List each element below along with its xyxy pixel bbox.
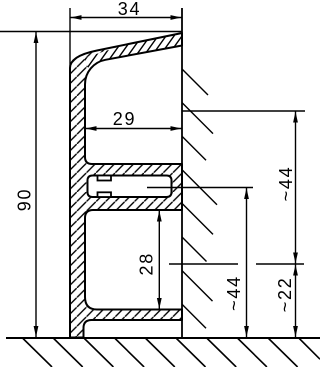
svg-text:~22: ~22 bbox=[275, 277, 295, 313]
profile outline bbox=[70, 33, 182, 338]
dimension 90 line bbox=[35, 32, 37, 338]
dimension 90 top extension line bbox=[0, 31, 182, 33]
floor hatch bbox=[23, 339, 320, 367]
dimension ~44 right line bbox=[295, 111, 297, 264]
svg-text:90: 90 bbox=[15, 188, 35, 211]
svg-text:28: 28 bbox=[137, 252, 157, 275]
extension line right upper bbox=[182, 110, 305, 112]
extension line at ~22 level bbox=[169, 263, 238, 265]
svg-text:34: 34 bbox=[118, 0, 141, 19]
wall bbox=[181, 8, 183, 338]
dimension ~44 middle line bbox=[246, 188, 248, 338]
svg-text:~44: ~44 bbox=[276, 166, 296, 202]
svg-text:29: 29 bbox=[113, 109, 136, 129]
extension line at screw height bbox=[147, 187, 253, 189]
dimension 34 extension line left bbox=[69, 8, 71, 70]
dimension 29 line bbox=[85, 128, 182, 130]
dimension 28 line bbox=[158, 210, 160, 310]
dimension ~22 line bbox=[295, 264, 297, 338]
wall hatch bbox=[182, 69, 217, 328]
floor bbox=[6, 337, 320, 339]
clip notch lower bbox=[98, 192, 112, 197]
dimension 34 line bbox=[70, 17, 182, 19]
svg-text:~44: ~44 bbox=[224, 275, 244, 311]
clip notch upper bbox=[98, 176, 112, 181]
